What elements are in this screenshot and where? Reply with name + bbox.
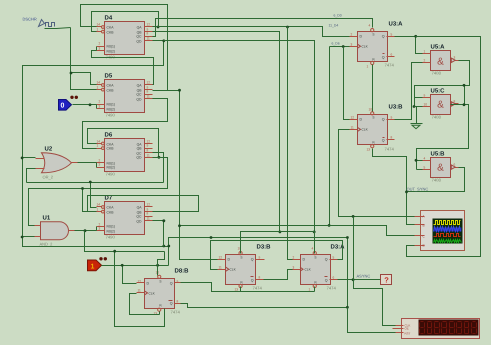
wire D5 QB net [153, 91, 218, 260]
junction U5:C out tap [463, 103, 466, 106]
wire up to bus 237 [169, 238, 348, 266]
wire U1 out down along bus 250 [85, 231, 165, 252]
svg-text:7490: 7490 [106, 235, 116, 240]
svg-text:AND_2: AND_2 [40, 242, 54, 247]
ground [411, 124, 423, 129]
wire D7 CKB drop [83, 189, 97, 212]
svg-text:10: 10 [369, 108, 373, 112]
junction U2 in1 [21, 157, 24, 160]
junction QB S-net [279, 231, 282, 234]
svg-text:D3:B: D3:B [257, 244, 272, 251]
svg-text:S: S [314, 256, 316, 260]
svg-text:QA: QA [137, 84, 143, 88]
svg-text:7490: 7490 [106, 172, 116, 177]
svg-text:CLK: CLK [362, 45, 369, 49]
svg-text:8: 8 [391, 136, 393, 140]
junction ASYNC [352, 278, 355, 281]
junction D tag [121, 264, 124, 267]
svg-text:R0(1): R0(1) [107, 225, 115, 229]
svg-text:U3:A: U3:A [389, 21, 404, 28]
svg-text:7408: 7408 [432, 71, 442, 76]
counter D5 7490 [97, 73, 153, 118]
svg-text:11: 11 [147, 37, 151, 41]
svg-text:CLK: CLK [362, 128, 369, 132]
wire scope B drop [407, 192, 415, 225]
svg-text:6: 6 [391, 53, 393, 57]
svg-text:CKA: CKA [107, 84, 115, 88]
svg-text:OR_2: OR_2 [43, 175, 54, 180]
wire 0 tag to D5 R0 [73, 104, 97, 106]
svg-text:Q: Q [382, 139, 385, 143]
wire QB riser to CLK [329, 47, 331, 226]
svg-text:U3:B: U3:B [389, 104, 404, 111]
wire 1 tag to D8:B S net [102, 265, 169, 267]
svg-text:7474: 7474 [171, 310, 181, 315]
svg-text:7408: 7408 [432, 115, 442, 120]
junction D5 QB [178, 89, 181, 92]
wire D6 QD loop to CKA [88, 129, 159, 158]
junction D4 QA to D3:A [286, 26, 289, 29]
wire ASYNC [338, 279, 381, 281]
wire D5 QB to D4 CKA (outer loop) [81, 5, 180, 91]
svg-text:D5: D5 [105, 73, 113, 80]
net label OUT_SYNC [407, 187, 429, 192]
svg-text:U1: U1 [43, 215, 51, 222]
svg-text:12: 12 [351, 116, 355, 120]
wire U2 out to D6 R0 [78, 162, 97, 164]
wire D6 QD to D7 CKB and U1 in1 [29, 158, 168, 226]
junction S tag [156, 264, 159, 267]
wire U3:A R to U3:B S [372, 65, 374, 112]
junction 7seg net [346, 306, 349, 309]
svg-text:11: 11 [351, 126, 355, 130]
wire OUT_SYNC [407, 168, 465, 192]
svg-text:S: S [240, 256, 242, 260]
svg-text:QC: QC [136, 35, 142, 39]
svg-text:B: B [423, 224, 425, 228]
junction bus237 right [346, 236, 349, 239]
svg-text:7474: 7474 [385, 63, 395, 68]
svg-text:11: 11 [147, 154, 151, 158]
svg-text:S: S [372, 33, 374, 37]
AND gate U1 [35, 215, 75, 247]
svg-text:3: 3 [99, 227, 101, 231]
svg-text:2: 2 [99, 100, 101, 104]
wire U3:A CLK line [330, 46, 350, 48]
wire U2 in2 from bus [27, 169, 36, 183]
wire D4 QD down to D3 S-net [164, 41, 315, 232]
junction U3:A CLK [342, 45, 345, 48]
svg-text:U2: U2 [45, 146, 53, 153]
net label ASYNC [357, 274, 371, 279]
svg-text:11: 11 [147, 95, 151, 99]
stub 7seg OE [393, 328, 396, 330]
wire D8:B Qbar down [181, 304, 348, 308]
svg-text:8: 8 [177, 300, 179, 304]
junction D7 QD [162, 219, 165, 222]
wire D6 R0 bridge [96, 163, 98, 168]
junction scope C tap [178, 224, 181, 227]
svg-text:2: 2 [424, 59, 426, 63]
svg-text:6_D6: 6_D6 [332, 42, 340, 46]
wire bus down right [347, 238, 349, 308]
svg-text:2: 2 [99, 42, 101, 46]
svg-text:QB: QB [137, 147, 143, 151]
svg-text:3: 3 [454, 56, 456, 60]
svg-text:U5:C: U5:C [431, 88, 446, 95]
net label QC_D4 [334, 14, 342, 18]
wire D7 QD riser [153, 221, 164, 247]
svg-text:7474: 7474 [327, 286, 337, 291]
svg-text:Q: Q [170, 302, 173, 306]
junction QB riser [328, 224, 331, 227]
svg-text:ASYNC: ASYNC [357, 274, 371, 279]
svg-text:5: 5 [424, 166, 426, 170]
svg-text:12: 12 [219, 256, 223, 260]
svg-text:4: 4 [369, 24, 371, 28]
flip-flop D8:B 7474 [137, 268, 190, 316]
wire U5:B in2 [417, 169, 423, 171]
svg-text:S: S [159, 280, 161, 284]
svg-text:D: D [360, 35, 363, 39]
wire D7 QB loop [88, 196, 199, 212]
net label QB_D5 [332, 42, 340, 46]
wire CLK net to U3:B D [344, 47, 350, 120]
svg-text:&: & [437, 100, 444, 111]
svg-text:U5:A: U5:A [431, 44, 446, 51]
AND gate U5:B 7408 [423, 151, 459, 183]
svg-text:9: 9 [424, 94, 426, 98]
counter D6 7490 [97, 132, 153, 177]
svg-text:CLK: CLK [149, 292, 156, 296]
junction bus237 CLK [210, 236, 213, 239]
wire D8:B CLK-R loop [130, 294, 160, 315]
svg-text:8: 8 [147, 212, 149, 216]
svg-text:3: 3 [99, 105, 101, 109]
svg-text:Q: Q [251, 258, 254, 262]
wire U3:A Q to U5:A in1 [395, 37, 423, 54]
junction U1 in2 [21, 236, 24, 239]
svg-text:3: 3 [293, 266, 295, 270]
svg-text:R0(2): R0(2) [107, 108, 115, 112]
svg-text:R0(1): R0(1) [107, 103, 115, 107]
svg-text:1: 1 [97, 28, 99, 32]
svg-text:&: & [437, 57, 444, 68]
7-segment display (8 digit) [396, 319, 480, 339]
svg-text:R0(2): R0(2) [107, 50, 115, 54]
svg-text:1: 1 [97, 144, 99, 148]
wire D3 S net [241, 232, 315, 254]
svg-text:7474: 7474 [253, 286, 263, 291]
svg-text:1: 1 [97, 86, 99, 90]
svg-text:D6: D6 [105, 132, 113, 139]
svg-text:D8:B: D8:B [175, 268, 190, 275]
svg-text:Q: Q [325, 258, 328, 262]
svg-text:3: 3 [99, 163, 101, 167]
stub D3:B Q [256, 259, 265, 261]
flip-flop D3:B 7474 [218, 244, 272, 292]
junction D4 QD [162, 39, 165, 42]
svg-text:1: 1 [309, 288, 311, 292]
junction 0 tag [89, 103, 92, 106]
counter D7 7490 [97, 195, 153, 240]
svg-text:QD: QD [136, 40, 142, 44]
junction D7 QD [162, 219, 165, 222]
wire async vertical [353, 217, 355, 280]
wire D3:A Q loop to D3:B CLK [211, 241, 343, 270]
junction U5:C in [413, 105, 416, 108]
svg-text:1: 1 [91, 264, 95, 271]
svg-text:9: 9 [147, 144, 149, 148]
svg-text:12: 12 [147, 203, 151, 207]
svg-text:9: 9 [259, 256, 261, 260]
svg-text:QD: QD [136, 98, 142, 102]
junction U1 out [84, 229, 87, 232]
svg-text:DSCHR: DSCHR [23, 17, 37, 22]
wire D5 QD to D6 CKB [83, 99, 168, 149]
wire to 7seg RST [348, 308, 396, 333]
terminal ? (ASYNC probe) [381, 275, 392, 285]
svg-text:R0(2): R0(2) [107, 166, 115, 170]
wire D5 R0 bridge [96, 105, 98, 109]
svg-text:11: 11 [147, 217, 151, 221]
svg-text:11: 11 [219, 266, 223, 270]
wire D4 QA to U3:A D [153, 27, 350, 37]
wire D5 QA to D4 R0 [92, 51, 154, 85]
svg-text:CKB: CKB [107, 31, 115, 35]
junction U3:A Q [414, 35, 417, 38]
svg-text:D: D [228, 258, 231, 262]
wire D4 QA down to D3:A D [288, 27, 293, 260]
wire D8 R drop [159, 312, 161, 315]
digital clock generator DCLOCK [23, 17, 57, 29]
wire U5:B in1 [417, 160, 423, 162]
svg-text:CLK: CLK [230, 268, 237, 272]
svg-text:CKA: CKA [107, 26, 115, 30]
wire bus250 down under D8 [115, 252, 165, 327]
svg-text:1: 1 [424, 50, 426, 54]
wire U1 out to D7 R0 [75, 230, 97, 232]
svg-text:QD: QD [136, 156, 142, 160]
svg-text:Q: Q [382, 35, 385, 39]
AND gate U5:A 7408 [423, 44, 459, 76]
junction clock split [70, 72, 73, 75]
junction outsync [405, 191, 408, 194]
svg-text:5: 5 [391, 33, 393, 37]
svg-text:QA: QA [137, 26, 143, 30]
wire U5:A out to U5:C [415, 61, 470, 98]
svg-text:OE: OE [405, 327, 409, 331]
svg-text:CKA: CKA [107, 206, 115, 210]
svg-text:QC: QC [136, 93, 142, 97]
svg-text:8: 8 [259, 276, 261, 280]
wire scope C tap [180, 226, 415, 236]
wire async to U3:B CLK and scope A [339, 130, 415, 217]
junction U5:C out net [463, 84, 466, 87]
wire D3:B R drop [240, 287, 242, 292]
wire to ground [415, 107, 417, 124]
svg-text:D: D [303, 258, 306, 262]
svg-text:R0(2): R0(2) [107, 230, 115, 234]
junction D7 QD riser [162, 245, 165, 248]
wire U5:C out [417, 105, 469, 170]
junction QD S-net [313, 231, 316, 234]
svg-text:QD: QD [136, 220, 142, 224]
svg-text:8: 8 [147, 90, 149, 94]
svg-text:R0(1): R0(1) [107, 45, 115, 49]
svg-text:14: 14 [97, 23, 101, 27]
svg-text:D: D [147, 282, 150, 286]
svg-text:10: 10 [424, 103, 428, 107]
svg-text:14: 14 [97, 81, 101, 85]
junction U5:B in1 [415, 159, 418, 162]
svg-text:U5:B: U5:B [431, 151, 446, 158]
svg-text:7408: 7408 [432, 178, 442, 183]
wire D4 QC to U3:A S [153, 19, 373, 37]
wire D4 QA to CKB (inner loop) [92, 12, 159, 32]
svg-text:QC: QC [136, 215, 142, 219]
wire bus y=181.5 [27, 182, 164, 184]
oscilloscope [415, 211, 465, 251]
svg-text:8: 8 [454, 100, 456, 104]
svg-text:1: 1 [97, 208, 99, 212]
svg-text:12: 12 [147, 23, 151, 27]
wire U2 in1 tap [23, 157, 36, 159]
wire D3:A R drop [314, 287, 316, 292]
svg-text:11: 11 [138, 289, 142, 293]
wire U3:A Q to scope D [407, 37, 481, 257]
wire U3:B R to scope B net [373, 149, 407, 192]
svg-text:5: 5 [333, 256, 335, 260]
svg-text:CLK: CLK [305, 268, 312, 272]
wire D6 QC to bus [153, 153, 164, 183]
svg-text:7474: 7474 [385, 147, 395, 152]
AND gate U5:C 7408 [423, 88, 459, 120]
wire D3:B Qb to D3:A CLK [264, 270, 293, 280]
svg-text:D: D [360, 118, 363, 122]
net label QA_D4 [329, 24, 339, 28]
svg-text:8: 8 [147, 149, 149, 153]
svg-text:Q: Q [382, 56, 385, 60]
wire D4 R0 bridge [96, 47, 98, 51]
svg-text:6: 6 [333, 276, 335, 280]
svg-text:RST: RST [405, 332, 411, 336]
svg-text:CKB: CKB [107, 89, 115, 93]
svg-text:Q: Q [170, 282, 173, 286]
svg-text:13: 13 [367, 148, 371, 152]
wire U1 bus to D8:B S [158, 252, 165, 276]
svg-text:11_D4: 11_D4 [329, 24, 339, 28]
svg-text:CKB: CKB [107, 211, 115, 215]
wire clock output [57, 28, 71, 29]
wire clock to D5 CKB [71, 28, 97, 90]
junction D7 CKA tap [89, 181, 92, 184]
svg-text:9: 9 [391, 116, 393, 120]
junction D7 CKB tap [81, 187, 84, 190]
svg-text:OUT_SYNC: OUT_SYNC [407, 187, 429, 192]
svg-text:CKB: CKB [107, 147, 115, 151]
svg-text:Q: Q [325, 279, 328, 283]
flip-flop D3:A 7474 [293, 244, 346, 292]
svg-text:9: 9 [177, 280, 179, 284]
svg-text:12: 12 [147, 81, 151, 85]
junction D6 QD loop [158, 156, 161, 159]
svg-text:7490: 7490 [106, 113, 116, 118]
svg-text:0: 0 [61, 103, 65, 110]
wire D4 QD to U1 in2 [23, 41, 169, 247]
svg-text:?: ? [384, 276, 389, 285]
svg-text:2: 2 [351, 33, 353, 37]
svg-text:Q: Q [251, 279, 254, 283]
svg-text:12: 12 [138, 280, 142, 284]
wire async down to 7seg CLK [354, 280, 396, 326]
wire D8:B Q to D3 R net [181, 283, 315, 292]
svg-text:Q: Q [382, 118, 385, 122]
svg-text:4: 4 [424, 157, 426, 161]
svg-text:&: & [437, 163, 444, 174]
wire U3:B Q to U5:A in2 [395, 63, 423, 120]
wire D3:A S drop [314, 232, 316, 254]
flip-flop U3:A 7474 [350, 21, 404, 69]
svg-text:13: 13 [235, 288, 239, 292]
wire U5:C out riser [464, 86, 466, 105]
wire bus to D7 CKA [91, 183, 97, 208]
wire D4 QB to S-net [153, 32, 280, 232]
svg-text:8: 8 [147, 32, 149, 36]
svg-text:3: 3 [99, 47, 101, 51]
junction scope A [352, 215, 355, 218]
svg-text:QA: QA [137, 206, 143, 210]
counter D4 7490 [97, 15, 153, 60]
flip-flop U3:B 7474 [350, 104, 404, 152]
svg-text:6: 6 [454, 163, 456, 167]
logic state 1 (red tag) [88, 257, 108, 271]
wire U1 in2 tap [23, 236, 35, 238]
svg-text:D4: D4 [105, 15, 113, 22]
svg-text:S: S [372, 116, 374, 120]
logic state 0 (blue tag) [59, 96, 79, 110]
junction 1-tag bus [113, 250, 116, 253]
svg-text:4: 4 [312, 247, 314, 251]
wire branch to D5 CKA [71, 73, 97, 85]
svg-text:6_D0: 6_D0 [334, 14, 342, 18]
svg-text:2: 2 [293, 256, 295, 260]
wire D7 R0 bridge [96, 227, 98, 231]
svg-text:3: 3 [351, 43, 353, 47]
junction D4 QA loop [157, 26, 160, 29]
OR gate U2 [36, 146, 78, 180]
svg-text:14: 14 [97, 203, 101, 207]
wire D8:B D from 1-tag [123, 266, 137, 284]
wire U5:C in2 gnd [415, 98, 423, 107]
svg-text:1: 1 [367, 65, 369, 69]
junction riser crossing [167, 245, 170, 248]
